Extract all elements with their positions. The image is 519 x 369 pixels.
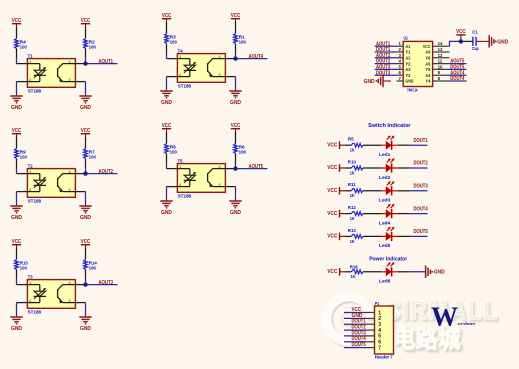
wire net DOUT1 to U1 pin 2 bbox=[375, 51, 397, 53]
svg-text:GND: GND bbox=[497, 39, 508, 45]
svg-text:100: 100 bbox=[20, 154, 27, 160]
U1 pin 14 stub bbox=[433, 41, 450, 46]
junction node AOUT1 bbox=[83, 61, 87, 65]
svg-text:AOUT1: AOUT1 bbox=[99, 59, 114, 65]
svg-text:10K: 10K bbox=[239, 39, 247, 45]
svg-text:GND: GND bbox=[11, 326, 22, 332]
wire R10 to Led2 bbox=[363, 167, 381, 169]
optocoupler T4 ST188 body bbox=[177, 49, 225, 90]
wire net AOUT1 to U1 pin 1 bbox=[375, 45, 397, 47]
U1 pin 9 stub bbox=[433, 70, 450, 75]
svg-text:T2: T2 bbox=[28, 164, 33, 170]
optocoupler T1 ST188 body bbox=[27, 54, 75, 95]
svg-text:VCC: VCC bbox=[423, 44, 431, 49]
svg-text:VCC: VCC bbox=[327, 211, 337, 217]
resistor R5 1K bbox=[348, 137, 363, 154]
svg-text:T1: T1 bbox=[28, 54, 33, 60]
svg-text:Led1: Led1 bbox=[379, 152, 391, 158]
ground symbol (right of T1) bbox=[79, 94, 91, 112]
ground symbol (left of T5) bbox=[160, 199, 172, 217]
svg-text:3: 3 bbox=[69, 78, 71, 82]
resistor R15 100 bbox=[15, 260, 28, 272]
optocoupler T2 ST188 body bbox=[27, 164, 75, 205]
svg-text:VCC: VCC bbox=[231, 123, 241, 129]
svg-text:AOUT4: AOUT4 bbox=[249, 54, 264, 60]
svg-text:AOUT5: AOUT5 bbox=[249, 164, 264, 170]
svg-text:DOUT5: DOUT5 bbox=[352, 342, 366, 348]
VCC power port (Led3 row) bbox=[327, 187, 339, 195]
U1 pin 3 stub bbox=[397, 53, 404, 58]
svg-text:Led6: Led6 bbox=[379, 279, 391, 285]
svg-text:ST188: ST188 bbox=[178, 84, 192, 90]
wire R15 to pin1 of T3 bbox=[16, 270, 18, 279]
wire VCC to R10 bbox=[340, 167, 346, 169]
wire pin3 of T4 to ground bbox=[225, 76, 235, 78]
svg-text:74HC14: 74HC14 bbox=[407, 87, 418, 92]
svg-text:10: 10 bbox=[438, 64, 443, 69]
watermark chinese text bbox=[393, 325, 461, 353]
wire R4 to pin1 of T1 bbox=[16, 49, 18, 58]
svg-text:A3: A3 bbox=[405, 67, 410, 72]
wire VCC to R2 bbox=[85, 27, 87, 38]
LED Led2 bbox=[379, 158, 398, 181]
svg-text:Y5: Y5 bbox=[425, 67, 430, 72]
connector P1 Header 7 body bbox=[375, 301, 394, 360]
svg-text:U1: U1 bbox=[404, 36, 409, 42]
svg-text:DOUT3: DOUT3 bbox=[414, 184, 428, 190]
svg-text:GND: GND bbox=[230, 100, 241, 106]
wire net DOUT3 to P1 pin 5 bbox=[344, 335, 366, 337]
wire VCC to R4 bbox=[16, 27, 18, 38]
svg-text:AOUT3: AOUT3 bbox=[99, 280, 114, 286]
resistor R13 1K bbox=[348, 228, 363, 245]
U1 pin 7 stub bbox=[397, 76, 404, 81]
svg-text:GND: GND bbox=[11, 105, 22, 111]
resistor R14 10K bbox=[84, 260, 97, 272]
svg-text:GND: GND bbox=[161, 100, 172, 106]
svg-text:ST188: ST188 bbox=[178, 194, 192, 200]
wire net DOUT1 to P1 pin 3 bbox=[344, 323, 366, 325]
VCC power port (Led2 row) bbox=[327, 164, 339, 172]
wire R13 to Led5 bbox=[363, 235, 381, 237]
P1 pin 2 stub bbox=[366, 317, 375, 319]
ground symbol (right of T5) bbox=[229, 199, 241, 217]
resistor R1 10K bbox=[234, 34, 247, 46]
U1 pin 6 stub bbox=[397, 70, 404, 75]
ground symbol (left of T4) bbox=[160, 89, 172, 107]
svg-text:GND: GND bbox=[434, 270, 445, 276]
svg-text:R13: R13 bbox=[348, 228, 356, 234]
ground symbol (right of T4) bbox=[229, 89, 241, 107]
LED Led5 bbox=[379, 227, 398, 250]
wire VCC to R12 bbox=[340, 213, 346, 215]
resistor R16 1K bbox=[350, 265, 363, 280]
svg-text:VCC: VCC bbox=[81, 239, 91, 245]
svg-text:C1: C1 bbox=[472, 30, 478, 36]
U1 pin 11 stub bbox=[433, 59, 450, 64]
wire VCC to R14 bbox=[85, 248, 87, 259]
VCC power port (Led6 row) bbox=[327, 268, 339, 276]
LED Led6 bbox=[379, 262, 398, 285]
svg-text:4: 4 bbox=[69, 60, 71, 64]
wire pin3 of T5 to ground bbox=[225, 186, 235, 188]
svg-text:2: 2 bbox=[179, 183, 181, 187]
VCC power port (right of T5) bbox=[231, 123, 241, 135]
LED Led4 bbox=[379, 204, 398, 227]
svg-text:100: 100 bbox=[20, 44, 27, 50]
svg-text:1K: 1K bbox=[351, 274, 356, 280]
svg-text:1K: 1K bbox=[350, 193, 355, 199]
svg-text:Header 7: Header 7 bbox=[375, 355, 393, 360]
svg-text:DOUT4: DOUT4 bbox=[414, 206, 428, 212]
wire R3 to pin1 of T4 bbox=[166, 44, 168, 53]
VCC power port (Led1 row) bbox=[327, 141, 339, 149]
wire R16 to Led6 bbox=[363, 271, 381, 273]
svg-text:A2: A2 bbox=[405, 56, 410, 61]
svg-text:1K: 1K bbox=[350, 216, 355, 222]
watermark CIRMALL text bbox=[384, 295, 499, 325]
resistor R6 10K bbox=[234, 144, 247, 156]
svg-text:R5: R5 bbox=[348, 137, 354, 143]
svg-text:GND: GND bbox=[80, 105, 91, 111]
P1 pin 1 stub bbox=[366, 312, 375, 314]
P1 pin 3 stub bbox=[366, 323, 375, 325]
svg-text:3: 3 bbox=[219, 183, 221, 187]
svg-text:VCC: VCC bbox=[12, 239, 22, 245]
svg-text:2: 2 bbox=[179, 73, 181, 77]
svg-text:4: 4 bbox=[219, 165, 221, 169]
svg-text:Led3: Led3 bbox=[379, 198, 391, 204]
junction node AOUT4 bbox=[233, 56, 237, 60]
svg-text:1: 1 bbox=[29, 60, 31, 64]
svg-text:VCC: VCC bbox=[327, 188, 337, 194]
svg-text:DOUT5: DOUT5 bbox=[414, 229, 428, 235]
wire VCC to R15 bbox=[16, 248, 18, 259]
svg-text:R16: R16 bbox=[350, 265, 358, 271]
svg-text:T3: T3 bbox=[28, 275, 33, 281]
svg-text:VCC: VCC bbox=[12, 18, 22, 24]
wire net DOUT4 to P1 pin 6 bbox=[344, 341, 366, 343]
ground symbol at U1 pin 7 bbox=[364, 75, 391, 87]
wire Led6 to ground bbox=[398, 271, 409, 273]
svg-text:Led4: Led4 bbox=[379, 220, 391, 226]
junction node AOUT2 bbox=[83, 171, 87, 175]
svg-text:1: 1 bbox=[29, 281, 31, 285]
svg-text:Switch Indicator: Switch Indicator bbox=[368, 123, 411, 129]
wire pin3 of T3 to ground bbox=[75, 302, 85, 304]
wire net DOUT3 to U1 pin 6 bbox=[375, 74, 397, 76]
wire R8 to pin1 of T5 bbox=[166, 154, 168, 163]
svg-text:10K: 10K bbox=[89, 44, 97, 50]
resistor R11 1K bbox=[348, 182, 363, 199]
svg-text:DOUT4: DOUT4 bbox=[450, 76, 464, 82]
wire R11 to Led3 bbox=[363, 190, 381, 192]
svg-text:VCC: VCC bbox=[81, 18, 91, 24]
wire pin4 of T5 to net AOUT5 bbox=[225, 168, 235, 170]
ground symbol (right of T2) bbox=[79, 204, 91, 222]
VCC power port (Led4 row) bbox=[327, 210, 339, 218]
wire R1 to node AOUT4 bbox=[235, 44, 237, 53]
VCC power port (right of T1) bbox=[81, 18, 91, 30]
svg-text:T4: T4 bbox=[178, 49, 183, 55]
wire U1 pin 14 to VCC bbox=[450, 41, 465, 46]
resistor R12 1K bbox=[348, 205, 363, 222]
svg-text:10K: 10K bbox=[239, 149, 247, 155]
VCC power port (right of T4) bbox=[231, 13, 241, 25]
svg-text:14: 14 bbox=[438, 41, 443, 46]
svg-text:P1: P1 bbox=[375, 301, 380, 307]
wire pin4 of T2 to net AOUT2 bbox=[75, 173, 85, 175]
svg-text:3: 3 bbox=[69, 188, 71, 192]
wire pin2 of T5 to ground bbox=[167, 186, 178, 188]
resistor R10 1K bbox=[348, 159, 363, 176]
wire U1 to net DOUT5 bbox=[450, 68, 467, 70]
svg-text:VCC: VCC bbox=[162, 13, 172, 19]
svg-text:A6: A6 bbox=[425, 50, 430, 55]
wire VCC to R6 bbox=[235, 132, 237, 143]
svg-text:100: 100 bbox=[20, 265, 27, 271]
junction node AOUT3 bbox=[83, 282, 87, 286]
P1 pin 7 stub bbox=[366, 347, 375, 349]
VCC power port (left of T2) bbox=[12, 128, 22, 140]
svg-text:VCC: VCC bbox=[231, 13, 241, 19]
wire net VCC to P1 pin 1 bbox=[344, 312, 366, 314]
svg-text:VCC: VCC bbox=[12, 128, 22, 134]
svg-text:VCC: VCC bbox=[327, 142, 337, 148]
wire R2 to node AOUT1 bbox=[85, 49, 87, 58]
wire VCC to R9 bbox=[16, 137, 18, 148]
svg-text:R12: R12 bbox=[348, 205, 356, 211]
svg-text:GND: GND bbox=[161, 210, 172, 216]
ground symbol (right of T3) bbox=[79, 315, 91, 333]
wire net AOUT2 to U1 pin 3 bbox=[375, 57, 397, 59]
wire pin2 of T4 to ground bbox=[167, 76, 178, 78]
P1 pin 6 stub bbox=[366, 341, 375, 343]
wire net DOUT5 to P1 pin 7 bbox=[344, 347, 366, 349]
VCC power port (left of T3) bbox=[12, 239, 22, 251]
svg-text:A5: A5 bbox=[425, 61, 430, 66]
P1 pin 5 stub bbox=[366, 335, 375, 337]
svg-text:4: 4 bbox=[219, 55, 221, 59]
svg-text:ST188: ST188 bbox=[28, 310, 42, 316]
capacitor C1 Cap bbox=[472, 30, 479, 52]
svg-text:1: 1 bbox=[179, 165, 181, 169]
U1 pin 4 stub bbox=[397, 59, 404, 64]
wire VCC to R11 bbox=[340, 190, 346, 192]
resistor R9 100 bbox=[15, 149, 27, 161]
svg-text:2: 2 bbox=[29, 299, 31, 303]
VCC power port (left of T1) bbox=[12, 18, 22, 30]
wire net DOUT2 to U1 pin 4 bbox=[375, 63, 397, 65]
svg-text:13: 13 bbox=[438, 47, 443, 52]
svg-text:W: W bbox=[431, 302, 458, 332]
optocoupler T5 ST188 body bbox=[177, 159, 225, 200]
IC U1 74HC14 body bbox=[403, 36, 432, 93]
svg-text:GND: GND bbox=[364, 79, 375, 85]
svg-text:A4: A4 bbox=[425, 73, 430, 78]
wire pin4 of T1 to net AOUT1 bbox=[75, 63, 85, 65]
VCC power port (Led5 row) bbox=[327, 233, 339, 241]
resistor R3 100 bbox=[165, 34, 177, 46]
svg-text:AOUT2: AOUT2 bbox=[99, 169, 114, 175]
wire R9 to pin1 of T2 bbox=[16, 159, 18, 168]
VCC power port (right of T3) bbox=[81, 239, 91, 251]
svg-text:VCC: VCC bbox=[327, 165, 337, 171]
svg-text:3: 3 bbox=[219, 73, 221, 77]
wire pin3 of T1 to ground bbox=[75, 81, 85, 83]
ground symbol (left of T1) bbox=[10, 94, 22, 112]
svg-text:1K: 1K bbox=[350, 148, 355, 154]
wire VCC to R8 bbox=[166, 132, 168, 143]
svg-text:GND: GND bbox=[80, 326, 91, 332]
VCC power port (left of T4) bbox=[162, 13, 172, 25]
ground symbol (left of T2) bbox=[10, 204, 22, 222]
wire Led3 to net DOUT3 bbox=[398, 190, 409, 192]
svg-text:10K: 10K bbox=[89, 265, 97, 271]
svg-text:1K: 1K bbox=[350, 239, 355, 245]
svg-text:100: 100 bbox=[170, 39, 177, 45]
svg-text:VCC: VCC bbox=[327, 234, 337, 240]
svg-text:A1: A1 bbox=[405, 44, 410, 49]
wire R7 to node AOUT2 bbox=[85, 159, 87, 168]
wire net DOUT2 to P1 pin 4 bbox=[344, 329, 366, 331]
wire R12 to Led4 bbox=[363, 213, 381, 215]
U1 pin 13 stub bbox=[433, 47, 450, 52]
wire pin2 of T2 to ground bbox=[17, 191, 28, 193]
wire VCC to R1 bbox=[235, 22, 237, 33]
svg-text:VCC: VCC bbox=[327, 269, 337, 275]
svg-text:Y6: Y6 bbox=[425, 56, 430, 61]
svg-text:2: 2 bbox=[29, 188, 31, 192]
wire pin4 of T3 to net AOUT3 bbox=[75, 284, 85, 286]
wire VCC to R13 bbox=[340, 235, 346, 237]
wire pin4 of T4 to net AOUT4 bbox=[225, 58, 235, 60]
resistor R8 100 bbox=[165, 144, 177, 156]
junction VCC / C1 bbox=[459, 39, 463, 43]
svg-text:VCC: VCC bbox=[162, 123, 172, 129]
ground symbol (Led6) bbox=[426, 266, 445, 278]
svg-text:1K: 1K bbox=[350, 170, 355, 176]
U1 pin 5 stub bbox=[397, 64, 404, 69]
wire C1 to ground bbox=[476, 40, 489, 42]
P1 pin 4 stub bbox=[366, 329, 375, 331]
wire VCC to R3 bbox=[166, 22, 168, 33]
svg-text:GND: GND bbox=[230, 210, 241, 216]
wire net GND to P1 pin 2 bbox=[344, 317, 366, 319]
resistor R7 10K bbox=[84, 149, 97, 161]
svg-text:1: 1 bbox=[29, 170, 31, 174]
VCC power port (left of T5) bbox=[162, 123, 172, 135]
svg-text:Y2: Y2 bbox=[405, 61, 410, 66]
wire R14 to node AOUT3 bbox=[85, 270, 87, 279]
svg-text:ST188: ST188 bbox=[28, 199, 42, 205]
U1 pin 10 stub bbox=[433, 64, 450, 69]
LED Led3 bbox=[379, 181, 398, 204]
ground symbol (C1) bbox=[489, 35, 508, 47]
wire U1 to net AOUT4 bbox=[450, 74, 467, 76]
svg-text:R11: R11 bbox=[348, 182, 356, 188]
watermark logo ring bbox=[319, 289, 380, 350]
svg-text:1: 1 bbox=[179, 55, 181, 59]
svg-text:T5: T5 bbox=[178, 159, 183, 165]
svg-text:11: 11 bbox=[438, 59, 443, 64]
U1 pin 12 stub bbox=[433, 53, 450, 58]
wire R6 to node AOUT5 bbox=[235, 154, 237, 163]
resistor R4 100 bbox=[15, 39, 27, 51]
svg-text:GND: GND bbox=[11, 215, 22, 221]
svg-text:4: 4 bbox=[69, 281, 71, 285]
U1 pin 2 stub bbox=[397, 47, 404, 52]
ground symbol (left of T3) bbox=[10, 315, 22, 333]
wire Led4 to net DOUT4 bbox=[398, 213, 409, 215]
wire U1 to net DOUT4 bbox=[450, 80, 467, 82]
svg-text:R10: R10 bbox=[348, 159, 356, 165]
optocoupler T3 ST188 body bbox=[27, 275, 75, 316]
LED Led1 bbox=[379, 136, 398, 159]
svg-text:100: 100 bbox=[170, 149, 177, 155]
svg-text:12: 12 bbox=[438, 53, 443, 58]
svg-text:GND: GND bbox=[80, 215, 91, 221]
wire Led1 to net DOUT1 bbox=[398, 144, 409, 146]
svg-text:Power Indicator: Power Indicator bbox=[369, 256, 407, 262]
wire pin3 of T2 to ground bbox=[75, 191, 85, 193]
wire net AOUT3 to U1 pin 5 bbox=[375, 68, 397, 70]
wire VCC to R7 bbox=[85, 137, 87, 148]
svg-text:VCC: VCC bbox=[81, 128, 91, 134]
svg-text:Led2: Led2 bbox=[379, 175, 391, 181]
svg-text:ST188: ST188 bbox=[28, 89, 42, 95]
svg-text:7: 7 bbox=[378, 345, 381, 351]
svg-text:Cap: Cap bbox=[472, 46, 479, 52]
svg-text:Led5: Led5 bbox=[379, 243, 391, 249]
U1 pin 8 stub bbox=[433, 76, 450, 81]
junction node AOUT5 bbox=[233, 166, 237, 170]
svg-text:GND: GND bbox=[405, 79, 414, 84]
svg-text:2: 2 bbox=[29, 78, 31, 82]
wire VCC to R16 bbox=[340, 271, 346, 273]
U1 pin 1 stub bbox=[397, 41, 404, 46]
wire VCC to R5 bbox=[340, 144, 346, 146]
svg-text:DOUT2: DOUT2 bbox=[414, 161, 428, 167]
wire pin2 of T3 to ground bbox=[17, 302, 28, 304]
svg-text:wrshare: wrshare bbox=[458, 321, 476, 326]
VCC power port (right of T2) bbox=[81, 128, 91, 140]
watermark W logo bbox=[431, 302, 476, 332]
wire Led5 to net DOUT5 bbox=[398, 235, 409, 237]
wire R5 to Led1 bbox=[363, 144, 381, 146]
svg-text:Y4: Y4 bbox=[425, 79, 430, 84]
wire pin2 of T1 to ground bbox=[17, 81, 28, 83]
svg-text:10K: 10K bbox=[89, 154, 97, 160]
wire Led2 to net DOUT2 bbox=[398, 167, 409, 169]
wire U1 to net AOUT5 bbox=[450, 63, 467, 65]
svg-text:Y1: Y1 bbox=[405, 50, 410, 55]
svg-text:4: 4 bbox=[69, 170, 71, 174]
resistor R2 10K bbox=[84, 39, 97, 51]
VCC power port (U1) bbox=[456, 29, 466, 41]
svg-text:DOUT1: DOUT1 bbox=[414, 138, 428, 144]
svg-text:3: 3 bbox=[69, 299, 71, 303]
svg-text:Y3: Y3 bbox=[405, 73, 410, 78]
